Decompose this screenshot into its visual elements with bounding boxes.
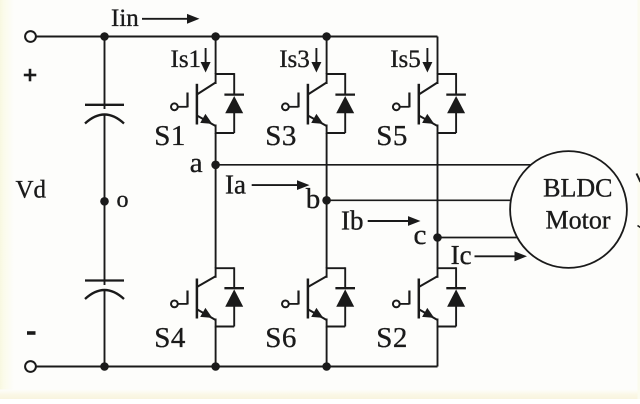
label Ib — [341, 205, 364, 235]
wire S1 emitter stub — [215, 125, 217, 134]
arrow Ic — [475, 251, 528, 261]
label Motor — [546, 205, 611, 234]
label S6 — [265, 322, 297, 354]
label Is1 — [171, 46, 202, 73]
label + (positive) — [24, 69, 37, 82]
svg-text:Is1: Is1 — [171, 46, 202, 73]
label b — [306, 183, 321, 215]
svg-text:Ib: Ib — [341, 205, 364, 235]
wire capacitor branch lower — [104, 290, 106, 367]
wire S1 diode branch bottom — [216, 113, 235, 133]
label S2 — [376, 322, 408, 354]
label Ia — [225, 170, 246, 200]
transistor S2 (IGBT) — [393, 276, 438, 320]
wire S6 diode branch top — [327, 267, 346, 288]
label Iin — [111, 5, 139, 32]
wire S2 emitter stub — [437, 319, 439, 328]
diode D4 (freewheeling) — [224, 288, 244, 307]
arrow Ib — [368, 216, 421, 226]
wire leg S2 bottom (cell to rail) — [437, 327, 439, 367]
wire S6 collector stub — [326, 267, 328, 278]
node a — [211, 161, 220, 170]
diode D2 (freewheeling) — [446, 288, 466, 307]
node bottom rail at capacitor branch — [100, 362, 109, 371]
svg-text:S3: S3 — [265, 120, 297, 152]
label - (negative) — [27, 331, 36, 335]
wire phase a to motor — [216, 164, 531, 166]
svg-text:Iin: Iin — [111, 5, 139, 32]
label Is5 — [390, 46, 421, 73]
wire leg phase segment (S5 to S2) — [437, 133, 439, 268]
svg-text:Ia: Ia — [225, 170, 246, 200]
scan edge tint right — [638, 0, 640, 399]
svg-text:a: a — [190, 147, 203, 179]
transistor S5 (IGBT) — [393, 83, 438, 127]
scan edge tint bottom — [0, 390, 640, 400]
wire S5 diode branch bottom — [438, 113, 457, 133]
node top rail at capacitor branch — [100, 32, 109, 41]
wire S2 diode branch top — [438, 267, 457, 288]
wire S3 diode branch top — [327, 73, 346, 95]
svg-text:c: c — [414, 219, 427, 251]
label Vd — [16, 177, 47, 204]
svg-text:b: b — [306, 183, 321, 215]
wire S3 emitter stub — [326, 125, 328, 134]
wire phase c to motor — [438, 237, 518, 239]
transistor S3 (IGBT) — [282, 83, 327, 127]
label o — [117, 187, 129, 213]
wire top rail — [36, 36, 438, 38]
wire S3 diode branch bottom — [327, 113, 346, 133]
terminal DC negative — [25, 361, 36, 372]
svg-text:o: o — [117, 187, 129, 213]
wire S4 emitter stub — [215, 319, 217, 328]
label S5 — [376, 120, 408, 152]
wire S1 diode branch top — [216, 73, 235, 95]
wire S4 collector stub — [215, 267, 217, 278]
wire leg S1 top (rail to cell) — [215, 37, 217, 75]
svg-text:S6: S6 — [265, 322, 297, 354]
svg-text:S4: S4 — [154, 322, 186, 354]
wire S4 diode branch bottom — [216, 306, 235, 326]
wire S5 diode branch top — [438, 73, 457, 95]
arrow Is1 (downward) — [201, 48, 211, 73]
label BLDC — [543, 173, 612, 202]
scan edge tint left — [0, 0, 14, 399]
capacitor C2 — [85, 281, 124, 300]
wire S3 collector stub — [326, 73, 328, 84]
label a — [190, 147, 203, 179]
wire leg phase segment (S1 to S4) — [215, 133, 217, 268]
arrow Ia — [252, 180, 310, 190]
transistor S6 (IGBT) — [282, 276, 327, 320]
wire S6 emitter stub — [326, 319, 328, 328]
stray mark right edge (cropped text) — [637, 174, 640, 228]
wire S2 diode branch bottom — [438, 306, 457, 326]
svg-text:Ic: Ic — [451, 240, 472, 270]
capacitor C1 — [85, 105, 124, 124]
wire S2 collector stub — [437, 267, 439, 278]
svg-text:Is5: Is5 — [390, 46, 421, 73]
svg-text:S1: S1 — [154, 120, 186, 152]
arrow Is5 (downward) — [422, 48, 432, 73]
svg-text:Vd: Vd — [16, 177, 47, 204]
wire S6 diode branch bottom — [327, 306, 346, 326]
node o (DC midpoint) — [100, 197, 109, 206]
wire capacitor branch upper — [104, 37, 106, 110]
terminal DC positive — [25, 31, 36, 42]
wire leg phase segment (S3 to S6) — [326, 133, 328, 268]
label S4 — [154, 322, 186, 354]
wire phase b to motor — [327, 199, 511, 201]
label c — [414, 219, 427, 251]
wire S1 collector stub — [215, 73, 217, 84]
arrow Iin — [142, 14, 200, 24]
diode D1 (freewheeling) — [224, 95, 244, 114]
node bottom rail at leg S6 — [322, 362, 331, 371]
node top rail at leg S3 — [322, 32, 331, 41]
arrow Is3 (downward) — [311, 48, 321, 73]
wire bottom rail — [36, 366, 438, 368]
wire S5 collector stub — [437, 73, 439, 84]
diode D6 (freewheeling) — [335, 288, 355, 307]
transistor S4 (IGBT) — [171, 276, 216, 320]
diode D3 (freewheeling) — [335, 95, 355, 114]
node top rail at leg S1 — [211, 32, 220, 41]
transistor S1 (IGBT) — [171, 83, 216, 127]
node c — [433, 233, 442, 242]
wire S5 emitter stub — [437, 125, 439, 134]
svg-text:Motor: Motor — [546, 205, 611, 234]
svg-text:S5: S5 — [376, 120, 408, 152]
label S3 — [265, 120, 297, 152]
label Ic — [451, 240, 472, 270]
node bottom rail at leg S4 — [211, 362, 220, 371]
svg-text:BLDC: BLDC — [543, 173, 612, 202]
node b — [322, 196, 331, 205]
wire leg S6 bottom (cell to rail) — [326, 327, 328, 367]
wire capacitor branch middle — [104, 115, 106, 286]
wire leg S5 top (rail to cell) — [437, 37, 439, 75]
wire leg S4 bottom (cell to rail) — [215, 327, 217, 367]
label S1 — [154, 120, 186, 152]
wire S4 diode branch top — [216, 267, 235, 288]
wire leg S3 top (rail to cell) — [326, 37, 328, 75]
svg-text:S2: S2 — [376, 322, 408, 354]
motor M (BLDC) outline — [510, 151, 627, 268]
svg-text:Is3: Is3 — [279, 46, 310, 73]
diode D5 (freewheeling) — [446, 95, 466, 114]
label Is3 — [279, 46, 310, 73]
